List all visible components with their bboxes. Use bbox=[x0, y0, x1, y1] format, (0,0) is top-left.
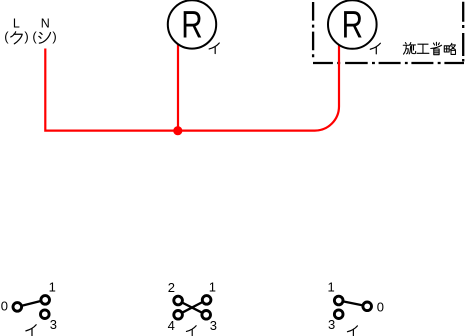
svg-text:0: 0 bbox=[377, 299, 384, 314]
svg-text:(: ( bbox=[4, 29, 9, 44]
svg-text:2: 2 bbox=[168, 280, 175, 295]
svg-text:): ) bbox=[52, 29, 56, 44]
svg-text:0: 0 bbox=[1, 298, 8, 313]
svg-text:N: N bbox=[41, 16, 50, 30]
svg-text:(: ( bbox=[32, 29, 37, 44]
svg-text:3: 3 bbox=[50, 317, 57, 332]
svg-text:L: L bbox=[13, 16, 20, 30]
svg-text:R: R bbox=[342, 4, 363, 46]
svg-text:): ) bbox=[24, 29, 28, 44]
svg-text:1: 1 bbox=[49, 280, 56, 295]
svg-text:3: 3 bbox=[210, 318, 217, 333]
svg-text:R: R bbox=[181, 4, 202, 46]
svg-text:1: 1 bbox=[328, 280, 335, 295]
svg-text:4: 4 bbox=[168, 318, 175, 333]
svg-text:1: 1 bbox=[209, 280, 216, 295]
svg-text:3: 3 bbox=[328, 317, 335, 332]
